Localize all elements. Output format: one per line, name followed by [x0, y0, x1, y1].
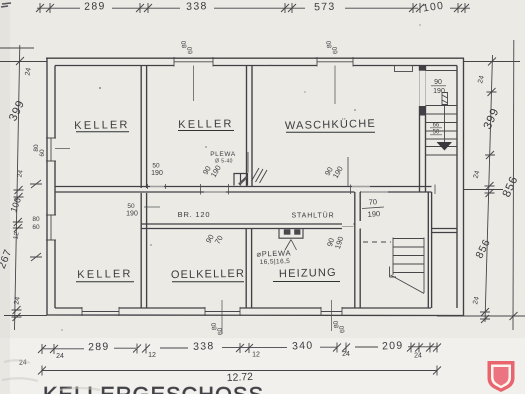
- door opening lightening overlays: [150, 187, 388, 193]
- chimney flue diagonal: [239, 177, 247, 185]
- svg-text:190: 190: [367, 209, 380, 219]
- svg-text:24: 24: [13, 296, 21, 305]
- tick right y92: [487, 88, 497, 96]
- wall corridor bottom: [141, 224, 355, 229]
- svg-text:60: 60: [39, 149, 46, 157]
- svg-text:289: 289: [84, 0, 106, 13]
- svg-text:190: 190: [126, 211, 138, 218]
- underline keller top-middle: [178, 130, 234, 132]
- svg-text:190: 190: [433, 88, 445, 95]
- stair door leaf line: [442, 93, 448, 105]
- window top waschkueche: [317, 57, 353, 67]
- stairs lower treads: [393, 239, 424, 273]
- dim line top: [37, 7, 470, 9]
- dim line right column outer: [512, 40, 515, 330]
- svg-text:24: 24: [56, 353, 64, 360]
- window centerline waschkueche: [334, 66, 336, 105]
- stairs upper arrow head: [437, 142, 453, 151]
- tick bottom x415: [407, 343, 423, 353]
- svg-text:WASCHKÜCHE: WASCHKÜCHE: [285, 118, 376, 132]
- svg-text:60: 60: [32, 224, 40, 231]
- svg-text:340: 340: [292, 339, 314, 352]
- svg-text:209: 209: [382, 339, 404, 352]
- wall between oelkeller and heizung: [246, 229, 251, 309]
- wall between waschkueche and stairwell: [420, 66, 426, 193]
- extension line right y190: [464, 189, 503, 191]
- wall between bottom keller and oelkeller: [141, 193, 146, 308]
- dim line left column: [15, 45, 20, 330]
- stairs lower diagonal: [391, 275, 425, 294]
- wall right outer: [463, 58, 465, 315]
- wall heizung right / stair hall left: [355, 192, 360, 308]
- svg-text:KELLER: KELLER: [74, 119, 130, 132]
- second chain ticks left: [30, 180, 42, 261]
- tick bottom x341: [333, 343, 350, 353]
- svg-text:KELLER: KELLER: [178, 118, 234, 131]
- window top-left keller: [174, 57, 213, 67]
- tick right y188: [485, 182, 495, 197]
- stairs lower flight box: [393, 238, 424, 294]
- extension line building bottom-left: [4, 315, 47, 317]
- paper tone: lighter bottom strip: [0, 338, 525, 394]
- svg-text:HEIZUNG: HEIZUNG: [279, 267, 337, 281]
- svg-text:50: 50: [152, 163, 160, 170]
- logo red shield watermark: [488, 361, 515, 392]
- tick left y190: [14, 186, 24, 201]
- window centerline top-left keller: [193, 66, 195, 102]
- wall left inner: [54, 66, 56, 309]
- wall bottom outer: [47, 314, 464, 317]
- tick top x416: [409, 3, 424, 13]
- window bottom wall oelkeller: [205, 307, 240, 316]
- total line end ticks: [38, 366, 441, 376]
- scan specks: [61, 24, 420, 330]
- window left wall keller1: [46, 138, 56, 161]
- svg-text:Ø 5-40: Ø 5-40: [215, 159, 233, 165]
- svg-text:289: 289: [88, 341, 110, 354]
- svg-text:90: 90: [434, 79, 442, 86]
- svg-text:16,5|16,5: 16,5|16,5: [260, 258, 291, 266]
- svg-text:12: 12: [148, 352, 156, 359]
- svg-text:24: 24: [342, 351, 350, 358]
- door jamb line right of chimney: [248, 152, 348, 186]
- tick top x140: [136, 3, 152, 13]
- svg-text:PLEWA: PLEWA: [210, 151, 236, 158]
- underline heizung: [273, 281, 340, 283]
- wall right inner: [456, 66, 458, 309]
- tick right y316 inner: [480, 308, 490, 323]
- door jamb ticks middle wall: [148, 184, 436, 195]
- wall corridor top (middle wall): [55, 187, 432, 193]
- tick left y310: [12, 306, 22, 321]
- window bottom wall heizung: [321, 307, 342, 316]
- tick right y316 outer: [509, 312, 519, 320]
- wall left outer: [46, 58, 48, 315]
- extension line building top-left: [0, 61, 47, 63]
- svg-text:573: 573: [314, 1, 336, 14]
- scan streaks bottom-left: [2, 360, 100, 390]
- tick right y155: [485, 151, 495, 159]
- scan smudge top-left corner: [1, 3, 11, 7]
- underline keller bottom-left: [76, 281, 134, 283]
- dashed headroom line: [363, 241, 391, 243]
- heizung door threshold: [342, 225, 354, 227]
- svg-text:12: 12: [252, 352, 260, 359]
- tick bottom x244: [236, 343, 253, 353]
- dim line bottom: [42, 347, 437, 349]
- plewa arrow: [285, 240, 297, 251]
- total dim line bottom: [42, 370, 437, 372]
- window centerline heizung: [331, 300, 333, 331]
- wall between top keller rooms: [141, 66, 146, 189]
- tick bottom x433: [426, 343, 441, 353]
- svg-text:⌀PLEWA: ⌀PLEWA: [256, 248, 291, 258]
- hatch marks door waschkueche: [252, 168, 268, 183]
- svg-text:70: 70: [368, 197, 377, 207]
- paper tone: left edge shade: [0, 0, 10, 394]
- chimney block middle wall: [234, 174, 248, 186]
- chimney double block corridor (plewa): [279, 229, 303, 239]
- wall stairwell bottom landing: [432, 229, 457, 233]
- tick top x40: [36, 3, 54, 13]
- svg-text:338: 338: [193, 340, 215, 353]
- stairs upper flight treads: [426, 71, 458, 156]
- wall top inner: [55, 65, 457, 67]
- tick right y62: [487, 58, 497, 66]
- svg-text:50: 50: [127, 203, 135, 210]
- window centerline oelkeller: [221, 300, 223, 334]
- stairs upper arrow shaft: [444, 106, 446, 142]
- wall top outer: [46, 57, 464, 59]
- extension line building bottom-right: [437, 315, 525, 317]
- tick top x288: [281, 3, 296, 13]
- stairs lower hook: [390, 267, 397, 278]
- svg-text:OELKELLER: OELKELLER: [171, 268, 245, 281]
- svg-text:80: 80: [32, 216, 40, 223]
- underline oelkeller: [172, 281, 244, 283]
- tick left y61: [15, 57, 25, 65]
- wall stair hall right: [428, 192, 431, 308]
- svg-text:STAHLTÜR: STAHLTÜR: [291, 212, 334, 220]
- svg-text:BR. 120: BR. 120: [178, 210, 211, 219]
- extension line building top-right: [464, 61, 520, 63]
- underline waschkueche: [286, 131, 375, 133]
- svg-text:KELLER: KELLER: [77, 268, 133, 281]
- wall between middle keller and waschkueche: [247, 66, 253, 187]
- pointer line corridor door: [144, 206, 160, 208]
- svg-text:24: 24: [24, 67, 32, 76]
- svg-text:190: 190: [151, 170, 163, 177]
- tick bottom x141: [133, 344, 150, 354]
- tick top x461: [454, 3, 469, 13]
- chimney flue squares: [284, 229, 291, 234]
- wall bottom inner: [55, 307, 431, 309]
- dim line right column inner: [485, 55, 493, 322]
- tick bottom x42: [38, 344, 58, 354]
- svg-text:24: 24: [414, 353, 422, 360]
- underline keller top-left: [76, 131, 129, 133]
- extension stub left edge: [0, 47, 34, 49]
- window bottom wall keller3: [82, 307, 119, 316]
- svg-text:338: 338: [186, 0, 208, 13]
- window centerline left keller1: [55, 148, 70, 150]
- tick left y222: [13, 218, 23, 232]
- small wall box waschkueche top right: [395, 66, 413, 72]
- window left wall bottom keller: [46, 215, 56, 240]
